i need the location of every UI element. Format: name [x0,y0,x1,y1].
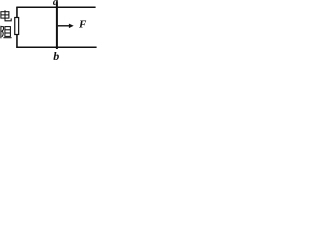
resistor R (电阻) [15,18,19,35]
svg-text:F: F [78,18,87,30]
conducting rod ab [56,1,58,49]
force arrow F [58,25,70,27]
wire left lower segment [16,34,18,48]
wire left upper segment [16,7,18,18]
svg-text:b: b [53,49,59,62]
wire top rail [16,6,95,8]
wire bottom rail [16,46,96,48]
label 电 (dian) [1,10,11,21]
label 阻 (zu) [1,26,12,39]
svg-text:a: a [53,0,58,8]
